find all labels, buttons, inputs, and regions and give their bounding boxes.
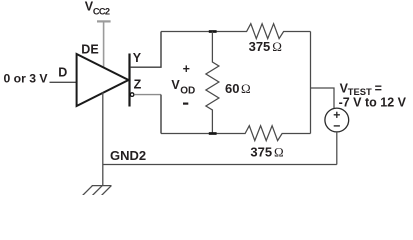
svg-text:0 or 3 V: 0 or 3 V: [4, 72, 49, 86]
ground hatch 1: [82, 186, 93, 197]
svg-text:Y: Y: [133, 51, 142, 65]
svg-text:Ω: Ω: [272, 39, 282, 54]
minus terminal: [334, 125, 340, 127]
svg-text:DE: DE: [81, 43, 98, 57]
wire D input: [50, 81, 78, 83]
source VTEST circle: [325, 108, 349, 132]
svg-text:375: 375: [250, 144, 272, 159]
label 375 ohm bottom: [250, 144, 283, 159]
driver output bar: [128, 54, 130, 107]
wire right vertical node: [310, 32, 312, 134]
svg-text:D: D: [58, 65, 67, 79]
wire driver ground drop: [102, 92, 104, 185]
label VTEST: [340, 81, 382, 96]
wire bottom rail with resistor R3: [161, 126, 311, 141]
svg-text:OD: OD: [180, 85, 195, 96]
op-amp driver triangle: [77, 54, 129, 106]
svg-text:CC2: CC2: [93, 6, 110, 16]
label 375 ohm top: [249, 39, 282, 54]
label minus VOD: [183, 102, 188, 104]
ground hatch 2: [91, 186, 102, 197]
wire VCC2 drop to driver: [103, 21, 105, 67]
ground hatch 3: [100, 186, 111, 197]
junction top node: [209, 30, 217, 33]
wire GND2 rail: [103, 164, 337, 166]
label 60 ohm: [225, 81, 251, 96]
svg-text:V: V: [171, 78, 180, 92]
wire tap to VTEST: [311, 88, 335, 109]
svg-text:=: =: [375, 81, 382, 95]
svg-text:Ω: Ω: [241, 81, 251, 96]
wire VTEST to GND2 rail: [336, 132, 338, 165]
wire Z drop: [160, 95, 162, 134]
svg-text:Z: Z: [134, 77, 142, 91]
svg-text:+: +: [183, 62, 190, 76]
wire Y output: [131, 32, 161, 68]
svg-text:Ω: Ω: [274, 144, 284, 159]
ground bar: [92, 185, 112, 187]
svg-text:GND2: GND2: [110, 148, 146, 163]
label VCC2: [85, 0, 110, 16]
svg-text:60: 60: [225, 81, 239, 96]
plus terminal: [334, 112, 340, 118]
svg-text:375: 375: [249, 39, 271, 54]
wire Z stub gray: [135, 94, 161, 96]
bubble inverted output: [130, 93, 134, 97]
label VOD: [171, 78, 195, 96]
junction bottom node: [209, 132, 217, 135]
svg-text:-7 V to 12 V: -7 V to 12 V: [339, 96, 407, 110]
resistor R2 60 ohm: [206, 32, 219, 134]
wire top rail with resistor R1: [161, 24, 311, 39]
power VCC2 T-bar: [97, 20, 111, 22]
